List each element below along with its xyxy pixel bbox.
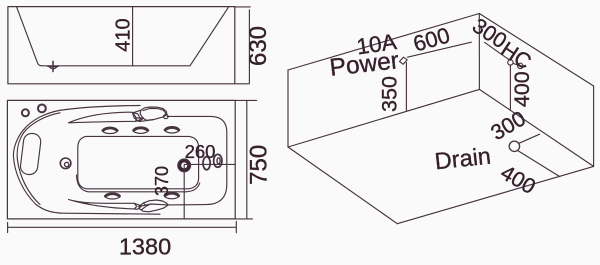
tub left bulge inner parallel curve	[17, 113, 60, 205]
dimension line 300 wall	[485, 42, 510, 60]
iso box floor front right edge	[397, 166, 593, 223]
side view drain mark cross	[48, 61, 58, 71]
iso box floor front left edge	[288, 147, 397, 224]
side view tub floor line	[42, 65, 190, 67]
extension line top right of top view	[235, 99, 257, 101]
deck jet oval 2 shading	[134, 128, 148, 131]
svg-text:300: 300	[487, 106, 530, 145]
control knob small circle right	[38, 105, 46, 113]
dimension line 630	[248, 10, 250, 84]
extension line bottom right of side view	[235, 83, 249, 85]
tub drain thick ring	[180, 161, 189, 170]
svg-text:260: 260	[185, 141, 216, 162]
svg-text:600: 600	[410, 22, 452, 56]
dimension line 600	[408, 42, 472, 57]
bottom grab handle blade	[69, 200, 142, 210]
deck jet oval bottom 1 shading	[105, 194, 119, 196]
dimension line 410	[132, 7, 134, 66]
svg-text:Drain: Drain	[433, 143, 492, 175]
deck jet oval 1 shading	[103, 128, 117, 131]
inner basin rounded rectangle	[78, 136, 199, 188]
dimension line 400 floor	[518, 151, 560, 177]
deck jet oval bottom 1	[105, 193, 120, 199]
hot cold water circle H	[508, 60, 513, 65]
soap dish bottom 3d shape	[139, 200, 169, 212]
hot cold water circle C	[518, 63, 523, 68]
floor drain circle	[509, 141, 519, 151]
svg-text:1380: 1380	[119, 234, 171, 260]
dimension line 400 wall	[509, 65, 511, 109]
iso box right wall bottom edge	[479, 89, 593, 166]
tub drain outer thin ring	[178, 159, 191, 172]
dimension line 370	[183, 165, 185, 219]
pillow headrest	[20, 133, 42, 176]
svg-text:350: 350	[378, 76, 402, 112]
iso box left wall top edge	[288, 14, 479, 71]
dimension line 300 floor	[519, 134, 539, 143]
wall fitting oval 2	[214, 154, 222, 167]
tub inner rim right portion	[167, 116, 227, 204]
svg-text:370: 370	[152, 166, 172, 196]
deck jet oval bottom 2	[165, 192, 179, 198]
top grab handle blade	[69, 112, 141, 123]
wall fitting oval 2 inner	[217, 158, 220, 164]
iso box right wall front vertical edge	[593, 86, 595, 166]
dimension line 750	[246, 100, 248, 218]
tub outer shell left bulge outer curve	[13, 110, 160, 215]
iso box left wall front vertical edge	[287, 70, 289, 147]
side view tub profile left slant	[17, 7, 42, 66]
svg-text:750: 750	[246, 145, 273, 185]
top grab handle end cap line	[133, 112, 136, 121]
soap dish top inner rim line	[143, 109, 166, 115]
deck jet oval bottom 2 shading	[165, 193, 179, 196]
dimension line 1380	[8, 222, 237, 233]
soap dish top left skirt	[133, 110, 154, 121]
dimension line 350	[405, 63, 407, 111]
inner rim start rounded cap	[163, 115, 168, 119]
bottom grab handle end cap line	[134, 203, 137, 209]
side massage jet circle	[60, 158, 71, 169]
wall fitting oval 1	[203, 157, 210, 170]
soap dish bottom inner lines	[139, 203, 169, 210]
svg-text:400: 400	[510, 71, 534, 107]
svg-text:410: 410	[112, 18, 134, 51]
extension line bottom right of top view	[235, 218, 252, 220]
svg-text:630: 630	[245, 26, 272, 66]
iso box left wall bottom edge	[288, 89, 479, 147]
extension line top right of side view	[235, 6, 251, 8]
tub outer shell top edge	[66, 106, 140, 110]
dimension line 260	[184, 163, 235, 165]
control knob small circle left	[22, 109, 29, 116]
hot cold connector line	[513, 63, 518, 65]
deck jet oval 1	[103, 127, 118, 133]
basin outer bottom double line	[77, 175, 200, 192]
top view outer rectangle	[7, 100, 235, 218]
iso box right wall top edge	[479, 14, 593, 87]
side view outer rectangle	[8, 7, 235, 84]
power inlet marker	[400, 57, 408, 64]
deck jet oval 3 shading	[165, 128, 179, 131]
deck jet oval 3	[165, 127, 179, 133]
deck jet oval 2	[133, 127, 148, 133]
soap dish top 3d shape	[140, 107, 167, 120]
iso box back corner vertical edge	[478, 14, 480, 90]
side massage jet inner dot	[65, 162, 69, 166]
side view tub profile right slant	[190, 7, 229, 66]
